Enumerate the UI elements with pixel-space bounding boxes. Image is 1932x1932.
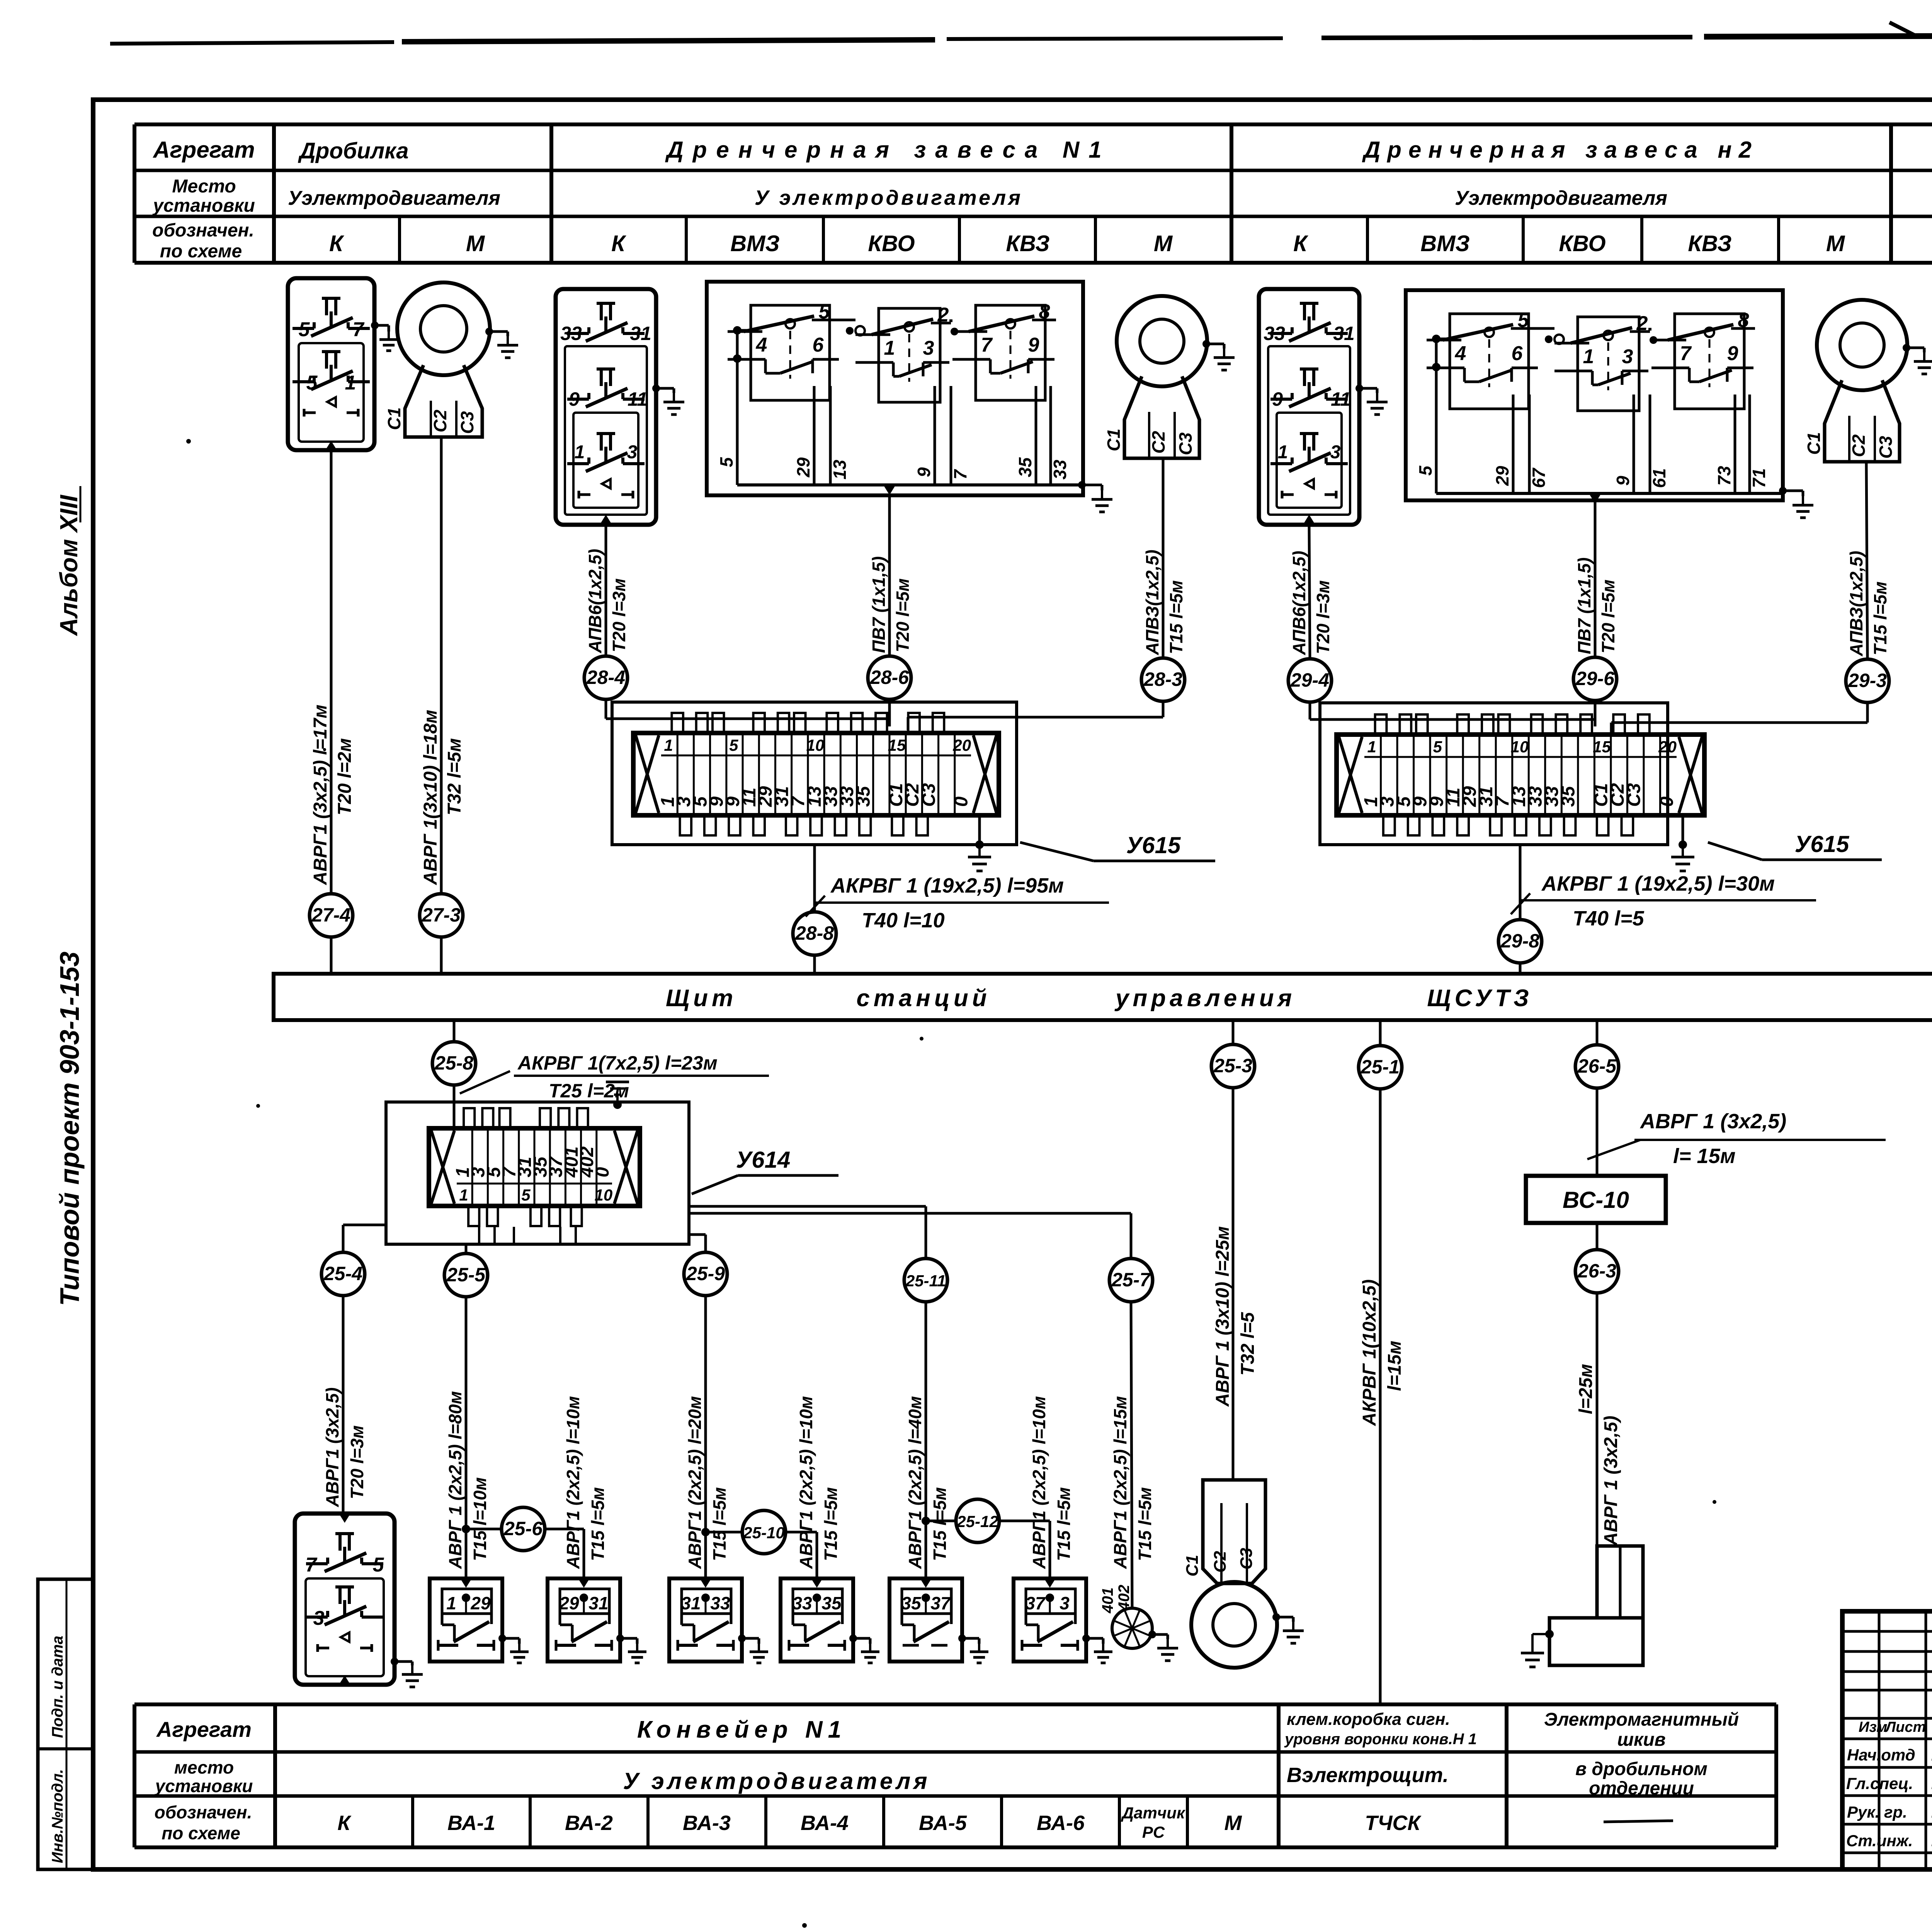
ground at K curtain N2	[1355, 384, 1388, 415]
svg-text:уровня воронки конв.Н 1: уровня воронки конв.Н 1	[1284, 1731, 1477, 1748]
svg-text:26-3: 26-3	[1577, 1260, 1616, 1282]
svg-text:Вэлектрощит.: Вэлектрощит.	[1287, 1764, 1449, 1787]
motor M (conveyor N1)	[1191, 1582, 1277, 1668]
svg-text:3: 3	[1060, 1593, 1070, 1613]
svg-text:Т20 l=3м: Т20 l=3м	[609, 578, 629, 652]
motor M (curtain N1)	[1117, 296, 1207, 386]
svg-text:АКРВГ 1 (19х2,5) l=95м: АКРВГ 1 (19х2,5) l=95м	[830, 874, 1064, 897]
svg-text:3: 3	[1330, 442, 1341, 463]
svg-text:1: 1	[575, 442, 585, 463]
svg-text:У615: У615	[1126, 832, 1181, 858]
left stamp column (Podp i data / Inv N podl)	[38, 1579, 93, 1869]
ground at conveyor motor	[1272, 1613, 1304, 1643]
wire motor Drobilka to node 27-3	[440, 437, 443, 894]
header row U elektrodvigatelya cells	[288, 186, 1932, 209]
label U615 no.2 with leader	[1708, 831, 1882, 860]
bottom cell U elektrodvigatelya	[623, 1768, 930, 1794]
svg-text:9: 9	[1613, 476, 1633, 486]
svg-text:33: 33	[1264, 323, 1285, 344]
svg-text:35: 35	[821, 1593, 842, 1613]
terminal box C1 C2 C3 of motor N2	[1804, 380, 1900, 462]
svg-text:ЩСУТЗ: ЩСУТЗ	[1427, 985, 1532, 1012]
svg-text:35: 35	[1558, 786, 1578, 807]
svg-text:0: 0	[1657, 796, 1677, 807]
wire bus to node 25-1	[1379, 1020, 1382, 1046]
svg-text:Типовой проект 903-1-15: Типовой проект 903-1-153	[54, 952, 85, 1306]
svg-text:М: М	[1225, 1811, 1242, 1835]
svg-text:С2: С2	[1849, 434, 1869, 457]
svg-text:7: 7	[981, 334, 993, 356]
svg-text:М: М	[1154, 231, 1173, 256]
wire U614 no.2 to node 25-5	[465, 1244, 468, 1253]
svg-text:Рук. гр.: Рук. гр.	[1847, 1803, 1907, 1821]
svg-text:25-8: 25-8	[434, 1052, 473, 1074]
svg-text:клем.коробка сигн.: клем.коробка сигн.	[1287, 1710, 1450, 1729]
ground at VA-1	[498, 1634, 529, 1663]
svg-text:С3: С3	[1175, 432, 1196, 455]
svg-text:25-7: 25-7	[1111, 1269, 1151, 1291]
cable label AVRG1(3x10) l=25m T32 l=5	[1213, 1226, 1258, 1407]
svg-text:АВРГ1 (2х2,5) l=10м: АВРГ1 (2х2,5) l=10м	[1029, 1396, 1049, 1569]
svg-text:ВА-5: ВА-5	[919, 1811, 967, 1835]
svg-text:обозначен.: обозначен.	[155, 1802, 252, 1822]
svg-text:29-8: 29-8	[1500, 930, 1539, 952]
wire node 29-3 into block U615 no.2	[1611, 702, 1867, 732]
svg-text:АВРГ1 (2х2,5) l=15м: АВРГ1 (2х2,5) l=15м	[1110, 1396, 1130, 1569]
wire node 29-6 into block U615 no.2	[1594, 701, 1597, 726]
limit switch VA-1	[430, 1578, 502, 1662]
svg-text:9: 9	[569, 388, 580, 410]
wire node 25-12 to switch VA-6	[999, 1521, 1050, 1578]
svg-text:АВРГ1 (2х2,5) l=40м: АВРГ1 (2х2,5) l=40м	[905, 1396, 925, 1569]
svg-text:33: 33	[560, 323, 582, 344]
motor M (Drobilka)	[397, 282, 490, 375]
cable label PV7(1x1,5) T20 l=5m (N2)	[1574, 558, 1618, 654]
svg-text:отделении: отделении	[1589, 1778, 1694, 1799]
cable label AVRG1(2x2,5) l=80m T15 l=10m	[445, 1391, 490, 1569]
svg-text:АВРГ1 (2х2,5) l=20м: АВРГ1 (2х2,5) l=20м	[685, 1396, 705, 1569]
node 28-3	[1141, 658, 1185, 701]
limit switch VA-6	[1014, 1578, 1086, 1662]
ground at sensor RS	[1148, 1631, 1178, 1661]
svg-text:35: 35	[901, 1593, 922, 1613]
svg-text:ВА-6: ВА-6	[1037, 1811, 1085, 1835]
wire K N1 to node 28-4	[605, 525, 607, 656]
svg-text:С1: С1	[1104, 429, 1124, 451]
svg-text:31: 31	[588, 1593, 608, 1613]
wire channel U614 no.2 to node 25-11	[689, 1206, 926, 1259]
svg-text:Подп. и дата: Подп. и дата	[49, 1636, 66, 1738]
bottom cell klem korobka	[1284, 1710, 1477, 1787]
stub wires under U614 no.2	[479, 1227, 576, 1244]
svg-text:КВО: КВО	[1559, 231, 1605, 256]
svg-text:2: 2	[1636, 312, 1648, 335]
svg-text:Щит: Щит	[666, 985, 737, 1012]
bottom cell Konveyer N1	[637, 1716, 847, 1743]
svg-text:С1: С1	[1183, 1555, 1202, 1577]
svg-text:15: 15	[888, 736, 906, 754]
svg-text:Т20 l=3м: Т20 l=3м	[347, 1425, 367, 1499]
wire node 29-4 into block U615 no.2	[1310, 702, 1595, 719]
svg-text:У615: У615	[1795, 831, 1850, 857]
svg-text:М: М	[1826, 231, 1845, 256]
svg-text:Т15 l=5м: Т15 l=5м	[930, 1487, 950, 1561]
svg-text:l=25м: l=25м	[1576, 1364, 1596, 1414]
ground at K Drobilka	[371, 321, 398, 351]
cable label AVRG1(3x2,5) T20 l=3m (conveyor K)	[322, 1388, 367, 1507]
svg-text:У электродвигателя: У электродвигателя	[623, 1768, 930, 1794]
cable label APV6(1x2,5) T20 l=3m	[585, 549, 629, 653]
svg-text:33: 33	[792, 1593, 812, 1613]
limit switch VA-2	[548, 1578, 620, 1662]
svg-text:5: 5	[819, 301, 830, 323]
cable label AVRG1(3x2,5) l=25m	[1576, 1364, 1621, 1546]
svg-text:401: 401	[1099, 1587, 1116, 1614]
svg-text:25-5: 25-5	[446, 1264, 486, 1286]
svg-text:4: 4	[756, 334, 767, 356]
wire U615 no.1 to node 28-8	[813, 845, 816, 912]
node 29-3	[1846, 659, 1889, 702]
svg-text:Уэлектродвигателя: Уэлектродвигателя	[288, 187, 500, 209]
svg-text:АВРГ 1 (2х2,5) l=80м: АВРГ 1 (2х2,5) l=80м	[445, 1391, 465, 1569]
node 25-10	[742, 1510, 786, 1554]
wire node 25-1 to terminal box (klem korobka)	[1379, 1089, 1382, 1704]
svg-text:Т15 l=5м: Т15 l=5м	[1166, 580, 1186, 654]
cable label AVRG1(2x2,5) l=40m T15 l=5m	[905, 1396, 950, 1569]
wire channel U614 no.2 to node 25-7	[689, 1213, 1131, 1259]
svg-text:ВМЗ: ВМЗ	[730, 231, 779, 256]
ground at U615 no.2	[1671, 815, 1694, 871]
svg-text:25-3: 25-3	[1213, 1055, 1252, 1077]
svg-text:9: 9	[1028, 334, 1039, 356]
svg-text:Т20 l=3м: Т20 l=3м	[1313, 580, 1333, 654]
svg-text:29: 29	[793, 457, 813, 478]
svg-text:Т15 l=5м: Т15 l=5м	[1870, 582, 1890, 655]
header table row labels	[152, 137, 255, 262]
svg-text:25-12: 25-12	[956, 1512, 998, 1531]
svg-text:28-8: 28-8	[795, 922, 834, 944]
svg-text:3: 3	[313, 1607, 325, 1629]
wire U614 no.2 to node 25-9	[689, 1235, 706, 1252]
svg-text:Т40 l=5: Т40 l=5	[1573, 907, 1645, 930]
bottom table grid	[134, 1704, 1776, 1847]
node 28-6	[868, 656, 911, 699]
header cell Drenchernaya zavesa N2	[1362, 137, 1759, 163]
svg-text:АВРГ1 (3х2,5): АВРГ1 (3х2,5)	[322, 1388, 342, 1507]
electromagnetic pulley TChSK block	[1549, 1546, 1643, 1665]
svg-text:71: 71	[1749, 468, 1769, 488]
svg-text:Электромагнитный: Электромагнитный	[1544, 1709, 1739, 1730]
svg-text:ВА-4: ВА-4	[801, 1811, 849, 1835]
svg-text:Т15 l=5м: Т15 l=5м	[1054, 1487, 1074, 1561]
ground at K conveyor	[391, 1658, 423, 1687]
svg-text:33: 33	[1050, 459, 1070, 480]
svg-text:1: 1	[1367, 738, 1376, 756]
svg-text:11: 11	[1331, 388, 1351, 410]
wire bus to node 25-8	[453, 1020, 456, 1043]
node 25-12	[956, 1499, 999, 1543]
ground above U614 no.2	[606, 1082, 629, 1109]
svg-text:К: К	[329, 231, 344, 256]
svg-text:ВС-10: ВС-10	[1563, 1187, 1629, 1213]
svg-text:1: 1	[345, 372, 356, 394]
svg-text:Т15 l=5м: Т15 l=5м	[588, 1487, 608, 1561]
svg-text:5: 5	[521, 1186, 531, 1204]
pushbutton station K (Drobilka)	[288, 278, 374, 450]
node 28-4	[584, 656, 628, 699]
ground at VA-5	[958, 1634, 988, 1663]
svg-text:1: 1	[446, 1593, 456, 1613]
node 25-3	[1211, 1044, 1255, 1088]
svg-text:25-4: 25-4	[323, 1263, 362, 1284]
svg-text:Изм: Изм	[1859, 1719, 1887, 1735]
svg-text:С3: С3	[1624, 783, 1645, 807]
svg-text:l= 15м: l= 15м	[1673, 1145, 1736, 1168]
terminal box C1 C2 C3 of motor Drobilka	[384, 365, 482, 437]
svg-text:Дренчерная завеса н2: Дренчерная завеса н2	[1362, 137, 1759, 163]
wire node 26-5 to box VS-10	[1596, 1088, 1599, 1176]
svg-text:31: 31	[630, 323, 651, 344]
svg-text:обозначен.: обозначен.	[152, 220, 254, 241]
svg-text:6: 6	[1512, 342, 1523, 365]
node 25-4	[321, 1252, 365, 1296]
box VS-10	[1526, 1176, 1666, 1223]
wire bus to node 26-5	[1596, 1020, 1599, 1045]
terminal box C1 C2 C3 of motor N1	[1104, 376, 1199, 458]
svg-text:Гл.спец.: Гл.спец.	[1846, 1774, 1913, 1793]
ground at electromagnetic pulley	[1521, 1630, 1554, 1667]
ground at motor N1	[1202, 340, 1235, 370]
node 28-8	[793, 912, 836, 955]
svg-text:У электродвигателя: У электродвигателя	[755, 186, 1023, 209]
svg-text:25-9: 25-9	[686, 1263, 725, 1284]
header designation row letters	[329, 231, 1932, 256]
svg-text:Т15 l=10м: Т15 l=10м	[470, 1477, 490, 1561]
svg-text:АПВ6(1х2,5): АПВ6(1х2,5)	[585, 549, 605, 653]
svg-text:9: 9	[1272, 388, 1283, 410]
svg-text:20: 20	[1658, 738, 1677, 756]
wire K N2 to node 29-4	[1309, 525, 1310, 659]
svg-text:29-6: 29-6	[1575, 668, 1615, 689]
svg-text:9: 9	[914, 467, 934, 477]
header table grid	[134, 124, 1932, 263]
svg-text:АПВЗ(1х2,5): АПВЗ(1х2,5)	[1142, 549, 1162, 655]
control panel bus SchSUTZ	[274, 974, 1932, 1020]
ground at VA-2	[616, 1634, 646, 1663]
node 29-4	[1288, 659, 1332, 702]
svg-text:1: 1	[1278, 442, 1288, 463]
node 26-3	[1575, 1250, 1619, 1293]
cable label AKRVG1(19x2,5) l=30m T40 l=5	[1511, 872, 1816, 930]
svg-text:КВО: КВО	[868, 231, 915, 256]
svg-text:ТЧСК: ТЧСК	[1365, 1811, 1422, 1835]
ground at group box N2	[1779, 487, 1813, 518]
svg-text:Агрегат: Агрегат	[156, 1717, 252, 1742]
terminal box C1 C2 C3 of conveyor motor	[1183, 1480, 1265, 1583]
ground at motor Drobilka	[485, 328, 518, 358]
cable label AKRVG1(19x2,5) l=95m T40 l=10	[806, 874, 1109, 932]
node 27-3	[420, 894, 463, 937]
svg-text:10: 10	[595, 1186, 613, 1204]
limit switch VA-5	[889, 1578, 962, 1662]
wire K Drobilka to node 27-4	[330, 450, 333, 894]
limit switch VA-3	[669, 1578, 742, 1662]
header cell Drobilka	[298, 138, 409, 163]
svg-text:Агрегат: Агрегат	[152, 137, 255, 163]
cable label AVRG1(2x2,5) l=10m T15 l=5m (VA-6)	[1029, 1396, 1074, 1569]
svg-text:АВРГ 1 (3х2,5): АВРГ 1 (3х2,5)	[1639, 1110, 1786, 1133]
svg-text:С3: С3	[1237, 1548, 1256, 1570]
ground at group box N1	[1078, 481, 1112, 512]
ground at VA-3	[738, 1634, 768, 1663]
svg-text:Т40 l=10: Т40 l=10	[862, 909, 945, 932]
node 26-5	[1575, 1045, 1619, 1088]
node 25-11	[904, 1259, 947, 1302]
cable label AKRVG1(10x2,5) l=15m	[1359, 1279, 1405, 1426]
svg-text:5: 5	[306, 372, 318, 394]
svg-text:25-1: 25-1	[1361, 1056, 1400, 1078]
svg-text:С1: С1	[1804, 432, 1824, 455]
pushbutton station K (conveyor N1)	[295, 1514, 395, 1685]
bottom designation letters	[337, 1804, 1673, 1841]
svg-text:3: 3	[923, 337, 934, 359]
svg-text:5: 5	[373, 1554, 384, 1576]
svg-text:29-4: 29-4	[1290, 669, 1329, 691]
wire node 27-4 to bus	[330, 937, 333, 974]
pushbutton station K (curtain N1)	[556, 289, 656, 525]
svg-text:20: 20	[952, 736, 971, 754]
terminal block U615 no.1	[612, 702, 1017, 845]
svg-text:29: 29	[470, 1593, 491, 1613]
svg-text:5: 5	[1518, 309, 1529, 332]
svg-text:37: 37	[930, 1593, 951, 1613]
wire node 25-11 to switch VA-5 and branch	[922, 1302, 956, 1578]
svg-text:67: 67	[1529, 467, 1549, 488]
svg-text:15: 15	[1593, 738, 1611, 756]
wire group N2 junction to node 29-6	[1594, 500, 1597, 657]
svg-text:31: 31	[1333, 323, 1355, 344]
svg-text:С2: С2	[430, 410, 450, 432]
cable label AKRVG1(7x2,5) l=23m T25 l=2m	[460, 1052, 769, 1102]
svg-text:10: 10	[1511, 738, 1529, 756]
svg-text:35: 35	[853, 786, 874, 807]
wire node 25-9 to switch VA-3 and branch	[701, 1296, 742, 1578]
svg-text:АКРВГ 1 (19х2,5) l=30м: АКРВГ 1 (19х2,5) l=30м	[1541, 872, 1775, 895]
svg-text:Т15 l=5м: Т15 l=5м	[1135, 1487, 1155, 1561]
limit switch group VMZ KVO KVZ (curtain N2)	[1406, 290, 1783, 503]
svg-text:7: 7	[1680, 342, 1692, 365]
svg-text:9: 9	[1727, 342, 1738, 365]
cable label PV7(1x1,5) T20 l=5m	[869, 556, 913, 653]
svg-text:1: 1	[459, 1186, 468, 1204]
wire node 28-3 into block U615 no.1	[908, 701, 1163, 730]
cable label AVRG1(3x2,5) l=15m	[1587, 1110, 1886, 1168]
scan artifact: top edge line	[110, 22, 1932, 44]
svg-text:К: К	[1293, 231, 1308, 256]
svg-text:4: 4	[1455, 342, 1466, 365]
svg-text:27-4: 27-4	[311, 904, 350, 926]
svg-text:установки: установки	[155, 1776, 253, 1796]
node 27-4	[310, 894, 353, 937]
node 25-5	[444, 1253, 488, 1297]
svg-text:10: 10	[806, 736, 825, 754]
cable label APV6(1x2,5) T20 l=3m (N2)	[1289, 551, 1333, 655]
svg-text:Дренчерная завеса N1: Дренчерная завеса N1	[665, 137, 1111, 163]
wire node 25-7 to sensor RS	[1131, 1302, 1132, 1609]
svg-text:1: 1	[884, 337, 895, 359]
ground at VA-6	[1082, 1634, 1112, 1663]
svg-text:29: 29	[1492, 466, 1512, 486]
svg-text:АВРГ1 (3х2,5) l=17м: АВРГ1 (3х2,5) l=17м	[310, 704, 331, 885]
wire node 25-6 to switch VA-2	[545, 1529, 584, 1578]
node 25-6	[502, 1507, 545, 1551]
svg-text:место: место	[174, 1757, 234, 1777]
svg-text:М: М	[466, 231, 485, 256]
svg-text:3: 3	[1622, 345, 1633, 368]
svg-text:АКРВГ 1(7х2,5) l=23м: АКРВГ 1(7х2,5) l=23м	[517, 1052, 718, 1074]
wire node 26-3 to electromagnetic pulley	[1596, 1293, 1599, 1546]
svg-text:Т20 l=2м: Т20 l=2м	[335, 738, 355, 815]
svg-text:Нач.отд: Нач.отд	[1847, 1746, 1915, 1764]
svg-text:28-4: 28-4	[586, 667, 625, 688]
wire U614 no.2 to node 25-4	[343, 1225, 386, 1252]
svg-text:Т20 l=5м: Т20 l=5м	[893, 578, 913, 652]
svg-text:АПВ6(1х2,5): АПВ6(1х2,5)	[1289, 551, 1309, 655]
ground at U615 no.1	[968, 815, 991, 871]
wire node 25-3 to bottom motor	[1232, 1088, 1235, 1480]
svg-text:1: 1	[1583, 345, 1594, 368]
node 25-1	[1359, 1046, 1402, 1089]
wire U615 no.2 to node 29-8	[1519, 845, 1522, 920]
bottom cell electromagnitny shkiv	[1544, 1709, 1739, 1799]
cable label AVRG1(2x2,5) l=10m T15 l=5m (VA-4)	[796, 1396, 841, 1569]
wire node 25-4 to pushbutton K (conveyor)	[342, 1296, 345, 1514]
svg-text:3: 3	[627, 442, 638, 463]
header cell Drenchernaya zavesa N1	[665, 137, 1111, 163]
terminal block U614 no.2	[386, 1102, 689, 1244]
svg-text:шкив: шкив	[1617, 1730, 1665, 1750]
svg-text:5: 5	[299, 318, 310, 341]
svg-text:Т15 l=5м: Т15 l=5м	[709, 1487, 730, 1561]
svg-text:по схеме: по схеме	[160, 241, 242, 262]
svg-text:Т15 l=5м: Т15 l=5м	[821, 1487, 841, 1561]
svg-text:РС: РС	[1142, 1823, 1165, 1841]
svg-text:ВА-3: ВА-3	[683, 1811, 731, 1835]
cable label APVZ(1x2,5) T15 l=5m (N2)	[1846, 551, 1890, 656]
svg-text:С3: С3	[457, 411, 477, 434]
svg-text:АВРГ 1(3х10) l=18м: АВРГ 1(3х10) l=18м	[420, 710, 441, 885]
svg-text:6: 6	[813, 334, 824, 356]
cable label APVZ(1x2,5) T15 l=5m	[1142, 549, 1186, 655]
wire node 25-5 to switch VA-1 and branch	[462, 1297, 502, 1578]
svg-text:8: 8	[1039, 301, 1050, 323]
title block signature rows	[1846, 1718, 1932, 1850]
svg-text:установки: установки	[152, 196, 255, 216]
bottom table row labels	[155, 1717, 253, 1843]
svg-text:ВА-1: ВА-1	[447, 1811, 495, 1835]
svg-text:станций: станций	[856, 985, 990, 1012]
svg-text:l=15м: l=15м	[1384, 1341, 1405, 1391]
svg-text:АВРГ1 (2х2,5) l=10м: АВРГ1 (2х2,5) l=10м	[796, 1396, 816, 1569]
svg-text:управления: управления	[1114, 985, 1296, 1012]
cable label AVRG1(2x2,5) l=20m T15 l=5m	[685, 1396, 730, 1569]
wire node 29-8 to bus	[1519, 963, 1522, 974]
svg-text:АКРВГ 1(10х2,5): АКРВГ 1(10х2,5)	[1359, 1279, 1380, 1426]
svg-text:ПВ7 (1х1,5): ПВ7 (1х1,5)	[1574, 558, 1594, 654]
label U614 no.2 with leader	[692, 1147, 838, 1194]
svg-text:402: 402	[1116, 1585, 1133, 1611]
node 29-8	[1498, 920, 1542, 963]
